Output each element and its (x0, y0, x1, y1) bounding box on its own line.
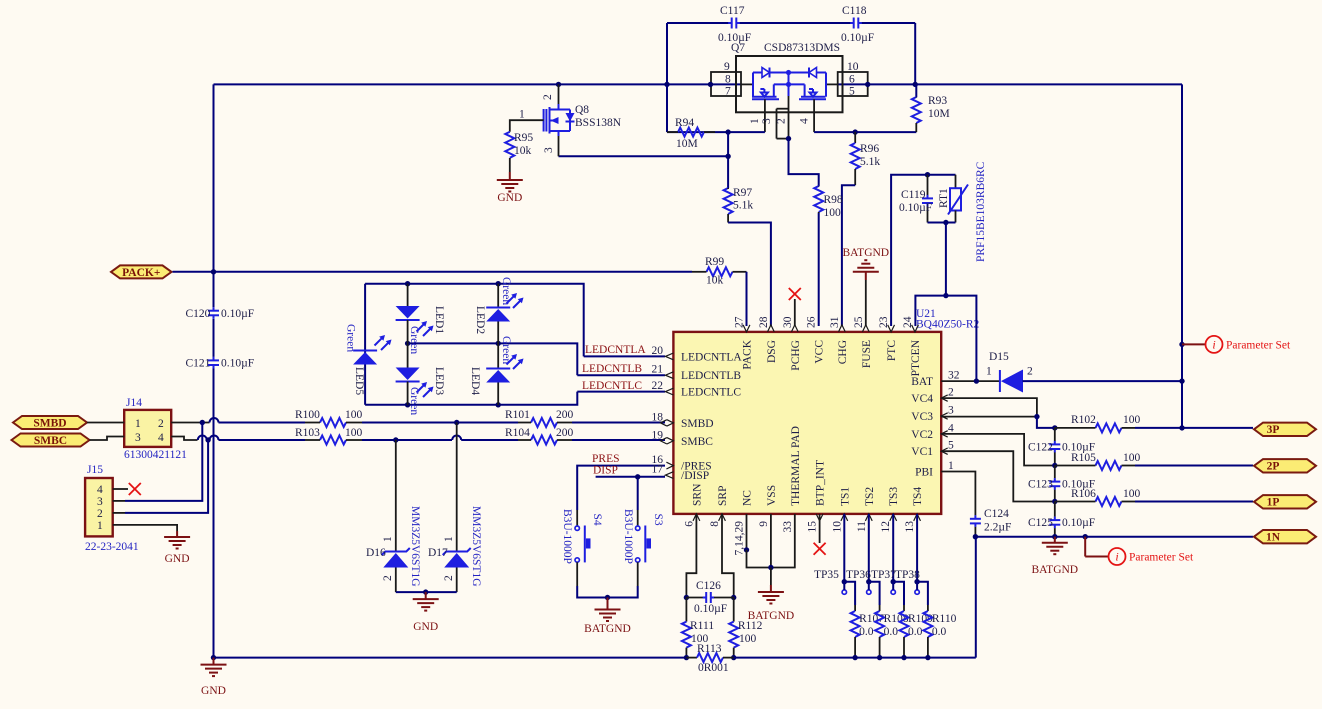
svg-text:200: 200 (556, 427, 574, 439)
wire J15 pin2 to SMBC (113, 512, 125, 514)
svg-text:R111: R111 (690, 620, 714, 632)
resistor R104 (531, 436, 557, 445)
wire TS1 to test point TP35 (843, 514, 845, 582)
svg-text:100: 100 (824, 207, 842, 219)
svg-text:0.0: 0.0 (884, 626, 899, 638)
svg-text:BAT: BAT (911, 376, 933, 388)
svg-text:LEDCNTLC: LEDCNTLC (582, 380, 642, 392)
connector J15 (85, 478, 113, 536)
svg-text:TP35: TP35 (814, 569, 839, 581)
svg-text:0.0: 0.0 (908, 626, 923, 638)
svg-text:4: 4 (799, 118, 811, 124)
svg-text:TS2: TS2 (864, 487, 876, 506)
svg-text:C124: C124 (984, 508, 1009, 520)
svg-text:R96: R96 (860, 143, 879, 155)
svg-text:3P: 3P (1267, 424, 1280, 436)
svg-text:0.10µF: 0.10µF (221, 308, 254, 320)
resistor R100 (320, 418, 346, 427)
svg-text:PBI: PBI (915, 467, 933, 479)
resistor R98 (814, 186, 823, 212)
wire VSS pin 9 (770, 514, 772, 568)
svg-text:PCHG: PCHG (790, 340, 802, 371)
wire LED left column (364, 284, 366, 405)
svg-text:0.10µF: 0.10µF (841, 32, 874, 44)
svg-text:100: 100 (345, 409, 363, 421)
resistor R110 (917, 582, 928, 605)
svg-text:1: 1 (948, 460, 954, 472)
svg-text:BSS138N: BSS138N (575, 117, 622, 129)
U21 bottom pin arrows (693, 514, 700, 521)
svg-text:20: 20 (652, 345, 664, 357)
net label LEDCNTLC (577, 391, 665, 393)
svg-text:D15: D15 (989, 351, 1009, 363)
svg-text:MM3Z5V6ST1G: MM3Z5V6ST1G (409, 506, 421, 587)
svg-text:C123: C123 (1028, 479, 1053, 491)
svg-text:100: 100 (1123, 488, 1141, 500)
svg-text:C120: C120 (186, 308, 211, 320)
svg-text:Parameter Set: Parameter Set (1129, 552, 1194, 564)
svg-text:i: i (1212, 338, 1215, 352)
svg-text:10k: 10k (706, 275, 724, 287)
zener diode D17 MM3Z5V6ST1G (456, 423, 458, 553)
svg-text:PRES: PRES (592, 453, 620, 465)
svg-text:100: 100 (739, 633, 757, 645)
svg-text:Q8: Q8 (575, 104, 589, 116)
svg-text:TP38: TP38 (895, 569, 920, 581)
svg-text:1: 1 (97, 520, 103, 532)
switch S4 B3U-1000P (575, 526, 579, 530)
wire VC3 pin 3 (941, 416, 1037, 418)
svg-text:GND: GND (165, 553, 190, 565)
ground GND below zeners (425, 592, 427, 599)
svg-text:15: 15 (807, 521, 819, 533)
wire J15 pin3 to SMBD (113, 500, 125, 502)
resistor R112 (733, 598, 735, 622)
svg-text:7,14,29: 7,14,29 (734, 521, 746, 556)
Q7 pin 4 (813, 99, 815, 132)
svg-text:J14: J14 (126, 397, 142, 409)
power flag SMBD (13, 416, 87, 429)
svg-text:2: 2 (542, 94, 554, 100)
svg-text:LED3: LED3 (433, 367, 445, 395)
svg-text:1: 1 (135, 418, 141, 430)
svg-text:24: 24 (902, 316, 914, 328)
wire SMBD net (171, 422, 209, 424)
svg-text:SMBD: SMBD (681, 418, 714, 430)
svg-text:MM3Z5V6ST1G: MM3Z5V6ST1G (470, 506, 482, 587)
resistor R113 (686, 657, 697, 659)
resistor R97 (724, 188, 733, 214)
svg-text:9: 9 (758, 521, 770, 527)
wire CHG rail (814, 131, 916, 133)
svg-text:R94: R94 (675, 117, 694, 129)
resistor R108 (869, 582, 880, 605)
ground BATGND below switches (607, 598, 609, 610)
svg-text:1: 1 (519, 109, 525, 121)
resistor R105 (1096, 461, 1122, 470)
svg-text:10k: 10k (514, 145, 532, 157)
no-connect X on PCHG pin 30 (794, 299, 796, 326)
wire BAT pin 32 (941, 380, 1000, 382)
capacitor C120 (213, 307, 215, 311)
transistor Q8 BSS138N (556, 82, 561, 87)
svg-text:2: 2 (1027, 366, 1033, 378)
svg-text:CSD87313DMS: CSD87313DMS (764, 42, 840, 54)
wire 1N rail (975, 536, 1253, 538)
svg-text:C118: C118 (842, 5, 867, 17)
LED LED3 (407, 343, 409, 367)
Q7 right pin box pins 6 5 (838, 72, 868, 96)
resistor R109 (893, 582, 904, 605)
power flag 3P (1254, 423, 1316, 436)
ground GND at bottom left (211, 655, 216, 660)
svg-text:2.2µF: 2.2µF (984, 522, 1011, 534)
svg-text:LEDCNTLA: LEDCNTLA (681, 351, 742, 363)
svg-text:C119: C119 (901, 189, 926, 201)
svg-text:11: 11 (856, 521, 868, 532)
capacitor C125 (1054, 502, 1056, 517)
capacitor C118 (850, 22, 854, 24)
Q7 internal drain verticals (752, 73, 754, 97)
wire SMBC flag to J14 (90, 437, 125, 441)
power flag SMBC (12, 434, 90, 447)
svg-text:BQ40Z50-R2: BQ40Z50-R2 (916, 319, 980, 331)
annotation Parameter Set upper (1179, 342, 1184, 347)
svg-text:Parameter Set: Parameter Set (1226, 340, 1291, 352)
resistor R103 (320, 436, 346, 445)
svg-text:J15: J15 (87, 464, 103, 476)
wire PTC pin 23 to thermistor (891, 175, 955, 326)
svg-text:VSS: VSS (766, 485, 778, 506)
svg-text:0.0: 0.0 (859, 626, 874, 638)
svg-text:GND: GND (201, 685, 226, 697)
resistor R94 (666, 84, 668, 132)
svg-text:17: 17 (652, 464, 664, 476)
LED LED4 (497, 343, 499, 368)
svg-text:22: 22 (652, 380, 664, 392)
svg-text:LED1: LED1 (433, 306, 445, 334)
svg-text:R98: R98 (824, 194, 843, 206)
svg-text:R97: R97 (733, 187, 752, 199)
svg-text:VCC: VCC (814, 340, 826, 364)
svg-text:SRP: SRP (717, 486, 729, 506)
svg-text:10M: 10M (676, 138, 698, 150)
Q8 gate wire pin 1 (510, 120, 544, 132)
capacitor C122 (1054, 428, 1056, 441)
svg-text:4: 4 (97, 484, 103, 496)
Q7 internal source link (774, 83, 805, 85)
svg-text:BATGND: BATGND (584, 623, 631, 635)
wire S3 branch (637, 477, 639, 510)
svg-text:0.10µF: 0.10µF (1062, 517, 1095, 529)
wire J15 pin1 to GND (113, 525, 177, 531)
svg-text:1: 1 (382, 536, 394, 542)
thermistor RT1 PRF15BE103RB6RC (955, 175, 957, 189)
wire SMBD flag to J14 (87, 422, 124, 424)
wire PTC net to PTCEN pin 24 and BAT (945, 223, 947, 296)
svg-text:C122: C122 (1028, 442, 1053, 454)
wire LED mid rail (408, 343, 578, 375)
svg-text:7: 7 (725, 86, 731, 98)
resistor R107 (844, 582, 855, 605)
power flag PACK+ (111, 265, 172, 278)
svg-text:6: 6 (849, 74, 855, 86)
svg-text:R105: R105 (1071, 452, 1096, 464)
svg-text:i: i (1115, 550, 1118, 564)
resistor R96 (854, 132, 856, 143)
capacitor C126 (686, 597, 703, 599)
svg-text:DISP: DISP (593, 465, 618, 477)
diode D15 (999, 370, 1001, 392)
LED LED1 (407, 284, 409, 306)
ground GND below R95 (509, 172, 511, 180)
capacitor C124 (974, 515, 976, 519)
svg-text:CHG: CHG (837, 340, 849, 364)
svg-text:4: 4 (158, 432, 164, 444)
svg-text:LEDCNTLB: LEDCNTLB (582, 363, 642, 375)
svg-text:200: 200 (556, 409, 574, 421)
svg-text:8: 8 (709, 521, 721, 527)
Q7 internal body diode right (789, 72, 810, 74)
svg-text:21: 21 (652, 364, 664, 376)
resistor R111 (685, 598, 687, 622)
svg-text:2: 2 (158, 418, 164, 430)
svg-text:SMBC: SMBC (681, 436, 713, 448)
LED LED2 (497, 284, 499, 308)
svg-text:THERMAL PAD: THERMAL PAD (790, 426, 802, 506)
Q8 body diode (569, 110, 571, 132)
svg-text:NC: NC (742, 490, 754, 506)
svg-text:1: 1 (443, 536, 455, 542)
wire TS2 to test point TP36 (868, 514, 870, 582)
wire THERMAL PAD pin 33 (771, 514, 795, 568)
svg-text:2: 2 (443, 575, 455, 581)
svg-text:VC4: VC4 (911, 393, 933, 405)
svg-text:5.1k: 5.1k (860, 156, 880, 168)
wire TS3 to test point TP37 (892, 514, 894, 582)
zener diode D16 MM3Z5V6ST1G (395, 440, 397, 552)
wire LED bottom rail (365, 392, 577, 405)
svg-text:100: 100 (345, 427, 363, 439)
svg-text:R102: R102 (1071, 414, 1096, 426)
svg-text:19: 19 (652, 429, 664, 441)
svg-text:PACK+: PACK+ (122, 267, 160, 279)
svg-text:PTCEN: PTCEN (910, 339, 922, 376)
svg-text:25: 25 (853, 316, 865, 328)
svg-text:2: 2 (97, 508, 103, 520)
svg-text:10: 10 (847, 61, 859, 73)
wire SRP pin 8 (722, 514, 734, 598)
wire bottom rail up to 1N (975, 537, 977, 658)
svg-text:100: 100 (1123, 452, 1141, 464)
resistor R93 (915, 84, 917, 97)
LED LED5 (353, 350, 377, 352)
svg-text:26: 26 (806, 316, 818, 328)
svg-text:C126: C126 (696, 580, 721, 592)
resistor R95 (505, 132, 514, 158)
svg-text:BTP_INT: BTP_INT (815, 460, 827, 506)
resistor R101 (531, 418, 557, 427)
wire J15 pin4 stub no-connect (113, 488, 128, 490)
svg-text:R104: R104 (505, 427, 530, 439)
svg-text:LED4: LED4 (469, 367, 481, 395)
svg-text:28: 28 (758, 316, 770, 328)
svg-text:BATGND: BATGND (748, 610, 795, 622)
svg-text:R113: R113 (697, 643, 722, 655)
svg-text:PACK: PACK (742, 339, 754, 369)
capacitor C123 (1054, 466, 1056, 479)
wire zener commons to GND (396, 591, 457, 593)
svg-text:10M: 10M (928, 108, 950, 120)
wire Q7 pin2 to R98 and VCC (789, 139, 819, 186)
capacitor C119 (927, 175, 929, 195)
svg-text:RT1: RT1 (938, 188, 950, 208)
svg-text:12: 12 (880, 521, 892, 533)
svg-text:TS4: TS4 (912, 487, 924, 506)
svg-text:R103: R103 (295, 427, 320, 439)
svg-text:1: 1 (749, 118, 761, 124)
svg-text:0.10µF: 0.10µF (221, 358, 254, 370)
svg-text:R99: R99 (705, 256, 724, 268)
svg-text:8: 8 (725, 74, 731, 86)
wire Q8 source to DSG net (727, 132, 729, 188)
net label DISP wire to pin 17 (596, 476, 665, 478)
svg-text:SMBC: SMBC (34, 435, 67, 447)
transistor Q7 CSD87313DMS outline (736, 56, 843, 112)
svg-text:R106: R106 (1071, 488, 1096, 500)
svg-text:3: 3 (97, 496, 103, 508)
svg-text:9: 9 (724, 61, 730, 73)
svg-text:LEDCNTLC: LEDCNTLC (681, 387, 741, 399)
power flag 1N (1254, 530, 1316, 543)
svg-text:2: 2 (948, 387, 954, 399)
svg-text:0.10µF: 0.10µF (899, 202, 932, 214)
wire VC1 pin 5 (941, 451, 1055, 501)
Q7 pin 3 and pin 2 wires (776, 109, 778, 139)
svg-text:1: 1 (986, 366, 992, 378)
svg-text:BATGND: BATGND (1031, 564, 1078, 576)
wire left vertical PACK+ (213, 84, 215, 307)
svg-text:0.0: 0.0 (932, 626, 947, 638)
wire NC pin (746, 514, 748, 550)
Q7 left pin box pins 8 7 (711, 72, 741, 96)
svg-text:C125: C125 (1028, 517, 1053, 529)
svg-text:18: 18 (652, 411, 664, 423)
svg-text:D17: D17 (428, 547, 448, 559)
net label LEDCNTLA (584, 355, 665, 357)
svg-text:2: 2 (776, 118, 788, 124)
connector J14 (124, 410, 171, 447)
Q7 left MOSFET (773, 84, 775, 96)
svg-text:4: 4 (948, 422, 954, 434)
svg-text:S4: S4 (591, 514, 603, 526)
switch S3 B3U-1000P (636, 526, 640, 530)
svg-text:S3: S3 (652, 514, 664, 526)
svg-text:13: 13 (904, 521, 916, 533)
U21 left pin arrows (665, 353, 673, 360)
wire VC4 pin 2 (941, 398, 1037, 417)
svg-text:3: 3 (948, 405, 954, 417)
wire bottom GND rail (214, 657, 687, 659)
svg-text:5: 5 (849, 86, 855, 98)
svg-text:D16: D16 (366, 547, 386, 559)
no-connect X on BTP_INT pin 15 (819, 514, 821, 543)
svg-text:R101: R101 (505, 409, 530, 421)
svg-text:33: 33 (782, 521, 794, 533)
svg-text:30: 30 (782, 316, 794, 328)
wire PBI pin 1 via C124 (941, 472, 975, 516)
svg-text:R110: R110 (932, 613, 957, 625)
svg-text:5.1k: 5.1k (733, 200, 753, 212)
svg-text:B3U-1000P: B3U-1000P (561, 509, 573, 564)
svg-text:23: 23 (878, 316, 890, 328)
wire DSG rail (667, 131, 765, 133)
svg-text:TP36: TP36 (846, 569, 871, 581)
ground GND at J15 (176, 531, 178, 537)
svg-text:GND: GND (497, 192, 522, 204)
svg-text:PTC: PTC (886, 340, 898, 361)
svg-text:10: 10 (831, 521, 843, 533)
svg-text:2P: 2P (1267, 461, 1280, 473)
wire R96 to CHG pin 31 (842, 185, 855, 326)
power flag 1P (1254, 495, 1316, 508)
svg-text:VC2: VC2 (911, 429, 933, 441)
svg-text:B3U-1000P: B3U-1000P (622, 509, 634, 564)
wire SMBC net (171, 437, 197, 441)
svg-text:TP37: TP37 (871, 569, 896, 581)
svg-text:FUSE: FUSE (861, 340, 873, 368)
svg-text:C121: C121 (186, 358, 211, 370)
wire PACK+ to pin 27 (173, 271, 693, 273)
svg-text:GND: GND (413, 621, 438, 633)
resistor R99 (707, 267, 733, 276)
wire right vertical to 3P (1181, 84, 1183, 428)
ground BATGND at VSS (770, 568, 772, 586)
svg-text:3: 3 (761, 118, 773, 124)
wire SRN pin 6 (686, 514, 696, 598)
wire top rail PACK (214, 83, 742, 85)
svg-text:0.10µF: 0.10µF (694, 603, 727, 615)
svg-text:6: 6 (683, 521, 695, 527)
svg-text:SRN: SRN (691, 483, 703, 506)
svg-text:61300421121: 61300421121 (124, 449, 187, 461)
Q7 internal body diode left (753, 72, 762, 74)
ground BATGND below C125 (1054, 537, 1056, 543)
resistor R102 (1096, 423, 1122, 432)
wire R97 to DSG pin 28 (728, 223, 771, 327)
wire RT1 bottom rail (928, 222, 956, 224)
svg-text:VC3: VC3 (911, 411, 933, 423)
svg-text:3: 3 (543, 147, 555, 153)
wire LED top rail (365, 284, 584, 357)
wire VC2 pin 4 (941, 434, 1055, 466)
svg-text:TS1: TS1 (839, 487, 851, 506)
capacitor C121 (213, 357, 215, 361)
svg-text:C117: C117 (720, 5, 745, 17)
power flag 2P (1254, 459, 1316, 472)
svg-text:100: 100 (1123, 414, 1141, 426)
svg-text:5: 5 (948, 440, 954, 452)
net label PRES wire to pin 16 (577, 466, 665, 510)
capacitor C117 (728, 22, 732, 24)
net label LEDCNTLB (577, 374, 665, 376)
svg-text:R95: R95 (514, 132, 533, 144)
svg-text:32: 32 (948, 370, 960, 382)
svg-text:22-23-2041: 22-23-2041 (85, 541, 139, 553)
wire switch commons to BATGND (576, 562, 578, 586)
op-amp U21 BQ40Z50-R2 body (673, 332, 941, 514)
svg-text:/DISP: /DISP (681, 470, 709, 482)
